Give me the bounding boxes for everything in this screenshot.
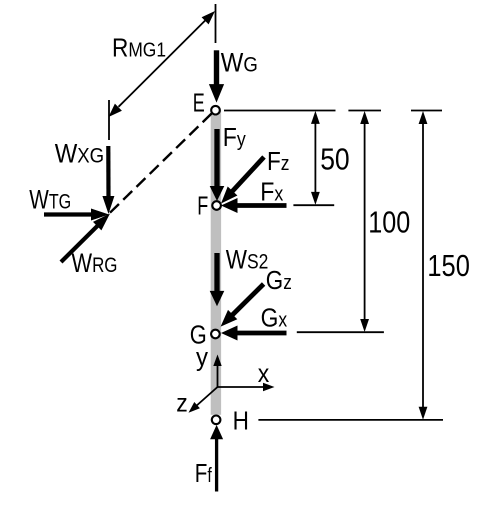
force Fx: [221, 198, 287, 213]
force Fz: [221, 157, 264, 204]
force WG: [209, 50, 224, 102]
extension line at G level: [297, 331, 384, 333]
svg-text:50: 50: [320, 143, 350, 177]
force Ff: [210, 425, 223, 492]
force WS2: [210, 253, 225, 306]
joint E: [211, 106, 220, 115]
x axis arrow: [218, 383, 275, 391]
joint H: [212, 416, 221, 425]
dimension arrow RMG1: [109, 11, 216, 117]
svg-text:E: E: [193, 88, 205, 118]
svg-text:100: 100: [368, 206, 410, 240]
dimension arrow 150 (E-H): [419, 111, 428, 420]
extension line at E level: [224, 110, 442, 112]
extension tick left (RMG1): [108, 100, 110, 140]
force Gx: [221, 326, 287, 341]
extension line at H level: [258, 419, 443, 421]
z axis arrow: [189, 387, 218, 413]
dimension arrow 50 (E-F): [311, 111, 320, 205]
force Fy: [210, 129, 225, 201]
svg-text:y: y: [196, 342, 208, 372]
svg-text:z: z: [176, 388, 188, 418]
dashed line from joint to E: [110, 113, 213, 213]
joint G: [211, 330, 220, 339]
force WTG: [44, 209, 109, 221]
force WRG: [61, 214, 110, 263]
svg-text:150: 150: [427, 249, 470, 283]
svg-text:H: H: [233, 406, 249, 436]
y axis arrow: [213, 355, 221, 388]
dimension arrow 100 (E-G): [360, 111, 369, 332]
joint F: [212, 201, 221, 210]
extension line at F level: [293, 204, 334, 206]
extension line above E: [215, 4, 217, 43]
svg-text:F: F: [197, 191, 208, 221]
svg-text:x: x: [258, 358, 270, 388]
force WXG: [102, 146, 114, 214]
shaft bar E-H: [211, 110, 221, 415]
force Gz: [221, 284, 264, 327]
